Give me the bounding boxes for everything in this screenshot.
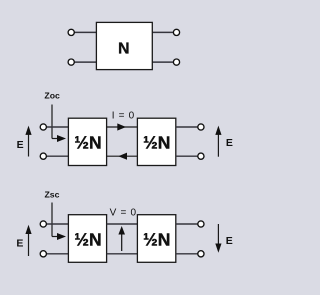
wire bottom-left top	[46, 223, 68, 225]
svg-text:E: E	[226, 235, 233, 247]
terminal middle right top	[198, 124, 204, 130]
terminal middle left bottom	[40, 153, 46, 159]
terminal middle left top	[40, 124, 46, 130]
svg-text:½N: ½N	[74, 133, 101, 153]
svg-text:N: N	[118, 41, 130, 58]
terminal 1b	[68, 59, 74, 65]
wire port1 bottom to N	[74, 61, 96, 63]
svg-text:½N: ½N	[143, 230, 170, 250]
wire mid-right bottom	[176, 155, 198, 157]
half-network ½N left (middle row)	[68, 118, 106, 165]
wire mid-left top	[46, 126, 68, 128]
wire N to port2 bottom	[152, 61, 173, 63]
svg-text:E: E	[17, 139, 24, 151]
wire bottom-right top	[176, 223, 198, 225]
terminal 2a	[173, 29, 179, 35]
terminal bottom left bottom	[40, 251, 46, 257]
source arrow E right (bottom row, pointing down)	[215, 224, 221, 253]
wire N to port2 top	[152, 31, 173, 33]
wire with current arrow (bottom, between halves)	[107, 153, 138, 160]
svg-text:E: E	[16, 238, 23, 250]
source arrow E left (bottom row)	[25, 225, 31, 256]
half-network ½N left (bottom row)	[68, 215, 106, 263]
svg-text:E: E	[226, 137, 233, 149]
voltage arrow V (between halves)	[118, 226, 125, 251]
wire bottom-left bottom	[46, 253, 68, 255]
half-network ½N right (bottom row)	[137, 215, 175, 263]
terminal bottom right bottom	[198, 251, 204, 257]
wire bottom middle bottom	[107, 253, 138, 255]
terminal bottom left top	[40, 221, 46, 227]
source arrow E right (middle row)	[215, 126, 221, 157]
svg-text:Zoc: Zoc	[44, 91, 60, 101]
svg-text:½N: ½N	[143, 133, 170, 153]
terminal bottom right top	[198, 221, 204, 227]
half-network ½N right (middle row)	[137, 118, 175, 165]
Zoc measurement arrow	[52, 105, 66, 143]
terminal 1a	[68, 29, 74, 35]
wire with current arrow (top, between halves)	[107, 123, 138, 130]
wire mid-right top	[176, 126, 198, 128]
source arrow E left (middle row)	[25, 126, 31, 157]
network N	[96, 22, 152, 69]
wire bottom middle top	[107, 223, 138, 225]
svg-text:I = 0: I = 0	[112, 110, 135, 121]
svg-text:½N: ½N	[74, 230, 101, 250]
wire port1 top to N	[74, 31, 96, 33]
svg-text:V = 0: V = 0	[110, 207, 137, 218]
Zsc measurement arrow	[52, 203, 66, 241]
svg-text:Zsc: Zsc	[45, 189, 60, 199]
terminal 2b	[173, 59, 179, 65]
wire mid-left bottom	[46, 155, 68, 157]
wire bottom-right bottom	[176, 253, 198, 255]
terminal middle right bottom	[198, 153, 204, 159]
